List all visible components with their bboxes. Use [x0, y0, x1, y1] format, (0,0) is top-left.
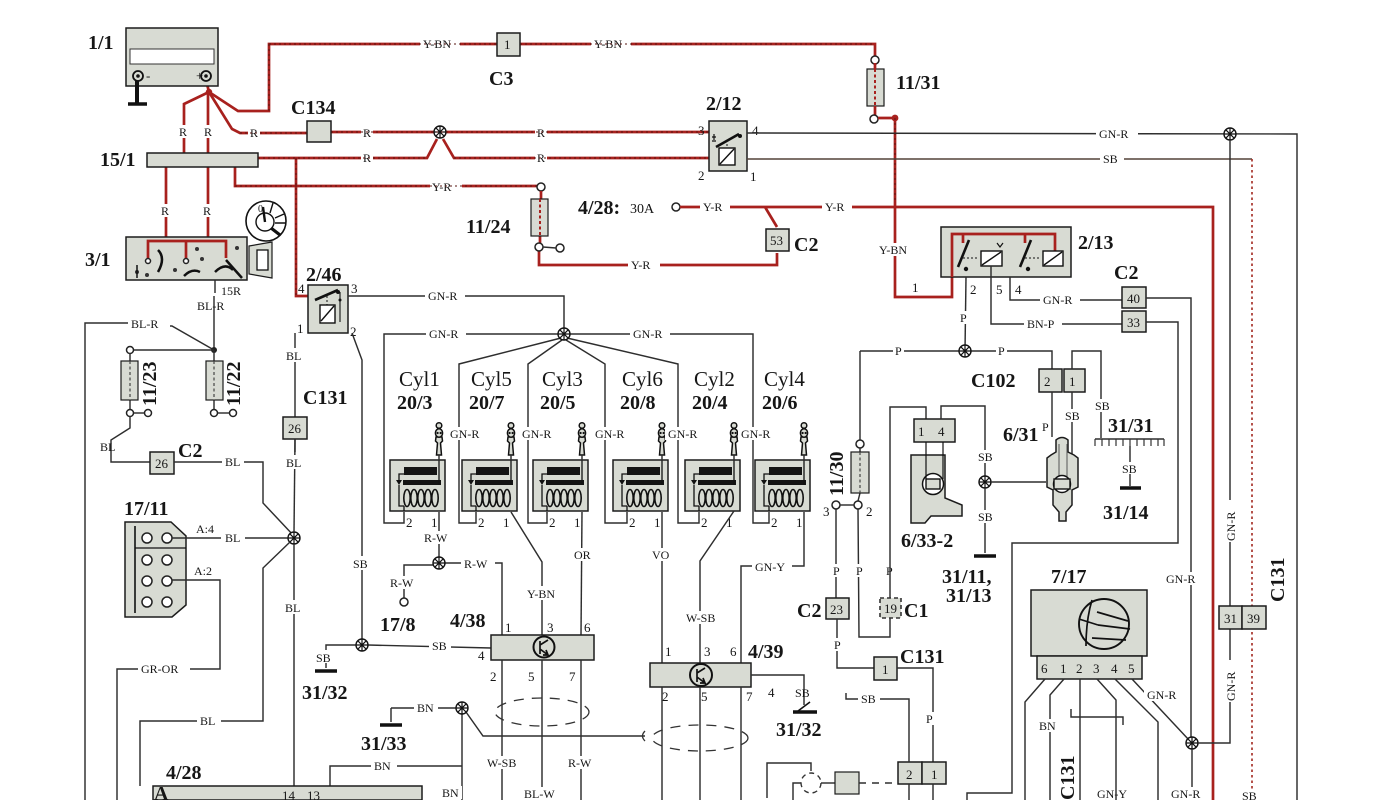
svg-text:SB: SB — [978, 450, 993, 464]
wire Y-BN Cyl5 pin1 to 4/38 pin3 — [511, 512, 542, 635]
pin 2 of 2/12 — [698, 168, 705, 183]
svg-text:2/13: 2/13 — [1078, 232, 1114, 254]
label C2 at 23 — [797, 600, 821, 622]
svg-text:Y-BN: Y-BN — [879, 243, 907, 257]
svg-text:GN-R: GN-R — [428, 289, 457, 303]
spark plug connector Cyl4 — [800, 423, 807, 461]
wire GN-R fan to Cyl6 pin2 — [566, 340, 627, 523]
wire SB starburst to ground — [326, 645, 357, 668]
svg-text:A:2: A:2 — [194, 564, 212, 578]
svg-text:30A: 30A — [630, 202, 655, 217]
svg-text:1: 1 — [665, 644, 672, 659]
ground 31/14 — [1120, 486, 1141, 490]
svg-text:2: 2 — [701, 515, 708, 530]
svg-text:2: 2 — [866, 504, 873, 519]
label SB row — [1100, 152, 1124, 166]
wire 7/17 pin3 down — [1097, 679, 1116, 800]
label GN-R row1 — [425, 289, 465, 303]
svg-text:6/31: 6/31 — [1003, 424, 1039, 446]
svg-text:W-SB: W-SB — [686, 611, 715, 625]
svg-text:14: 14 — [282, 788, 296, 800]
label C131 at pin1 — [900, 646, 944, 668]
svg-text:SB: SB — [1122, 462, 1137, 476]
label 31/31 — [1108, 415, 1154, 437]
label SB at 6/31 — [1062, 409, 1084, 423]
pin 14 of 4/28 — [282, 788, 296, 800]
pin 4 of 2/46 — [298, 281, 305, 296]
wire BL-R from 3/1 down to fuse junction — [213, 296, 215, 350]
label 31/32 right — [776, 719, 822, 741]
label R leg2 — [202, 125, 215, 139]
svg-text:P: P — [1042, 420, 1049, 434]
wire R row1 starburst to 2/12 pin3 (red) — [446, 131, 709, 134]
label 31/11, 31/13 — [942, 566, 992, 607]
label 4/39 — [748, 641, 784, 663]
svg-text:BN: BN — [417, 701, 434, 715]
svg-text:1: 1 — [574, 515, 581, 530]
label 11/24 — [466, 216, 510, 238]
svg-text:SB: SB — [1065, 409, 1080, 423]
wire GN-R 2/13 pin4 to C2-40 — [1010, 277, 1122, 300]
pin 1 of 2/13 — [912, 280, 919, 295]
label Y-BN — [524, 586, 565, 601]
wire BN branch to ECU pin13 — [330, 766, 462, 786]
label C2 above 40 — [1114, 262, 1138, 284]
svg-text:5: 5 — [528, 669, 535, 684]
key symbol 3/1 — [246, 201, 286, 241]
label 20/3 — [397, 392, 433, 414]
svg-text:BL: BL — [285, 601, 300, 615]
svg-text:3: 3 — [547, 620, 554, 635]
label SB below 31/31 — [1122, 462, 1137, 476]
svg-text:4/28:: 4/28: — [578, 197, 620, 219]
svg-text:4: 4 — [752, 123, 759, 138]
label R row2 right — [535, 151, 547, 165]
pin 4 of 4/39 — [768, 685, 775, 700]
ground 31/32 right — [793, 702, 817, 712]
label 11/23 (rotated) — [139, 362, 161, 406]
svg-text:BL-R: BL-R — [131, 317, 158, 331]
wire R row2 from 15/1 to 2/12 (red with crossover at starburst) — [258, 139, 709, 158]
svg-text:Y-R: Y-R — [825, 200, 844, 214]
label SB on 31/31 drop — [1092, 399, 1114, 413]
wire R battery down leg 2 (red) — [207, 93, 210, 153]
svg-text:4: 4 — [478, 648, 485, 663]
wire R 15/1 down to 3/1 leg1 (red) — [165, 167, 168, 241]
svg-text:20/7: 20/7 — [469, 392, 505, 414]
connector C2 pin33 — [1122, 311, 1146, 332]
pin 2 of 7/17 — [1076, 661, 1083, 676]
svg-text:1: 1 — [505, 620, 512, 635]
label 20/7 — [469, 392, 505, 414]
svg-text:1: 1 — [912, 280, 919, 295]
pin 5 of 4/39 — [701, 689, 708, 704]
svg-text:4: 4 — [938, 424, 945, 439]
node battery positive junction — [206, 80, 212, 95]
label C131 rotated below 7/17 — [1057, 756, 1079, 800]
svg-text:2/12: 2/12 — [706, 93, 742, 115]
connector 17/11 — [125, 522, 186, 617]
label C134 — [291, 97, 335, 119]
svg-text:2: 2 — [490, 669, 497, 684]
label BL-W below 4/38 — [521, 787, 559, 800]
label R-W below 4/38 — [565, 756, 597, 770]
label GN-Y — [752, 560, 792, 574]
wire SB 31/31 to ground — [1129, 446, 1131, 486]
svg-text:1: 1 — [882, 662, 889, 677]
svg-text:P: P — [960, 311, 967, 325]
coil Cyl1 20/3 — [390, 460, 445, 511]
svg-text:3: 3 — [351, 281, 358, 296]
label Y-R lower — [628, 258, 660, 272]
wire 7/17 pin4 down — [1115, 679, 1158, 800]
label Y-R row — [430, 180, 462, 194]
svg-text:GN-R: GN-R — [1171, 787, 1200, 800]
svg-text:2: 2 — [698, 168, 705, 183]
label R leg1 — [177, 125, 190, 139]
svg-text:2: 2 — [406, 515, 413, 530]
coil Cyl6 20/8 — [613, 460, 668, 511]
svg-text:R-W: R-W — [390, 576, 414, 590]
node junction starburst R — [434, 126, 446, 138]
label Y-R left — [700, 200, 730, 214]
svg-text:BL-R: BL-R — [197, 299, 224, 313]
pin 1 of 2/46 — [297, 321, 304, 336]
label BN on branch — [371, 759, 397, 773]
label GN-Y bottom — [1094, 787, 1134, 800]
wire into dashed sensor from below — [793, 783, 801, 800]
pin 3 of 7/17 — [1093, 661, 1100, 676]
label Y-BN right — [591, 37, 631, 51]
label SB bottom right — [1240, 789, 1264, 800]
spark plug connector Cyl3 — [578, 423, 585, 461]
wire SB starburst to 6/31 shell — [991, 481, 1046, 483]
label P x859 — [854, 564, 865, 578]
connector C3 — [497, 33, 520, 56]
pin 3 of 2/46 — [351, 281, 358, 296]
svg-text:Y-BN: Y-BN — [527, 587, 555, 601]
wire Y-R row from 15/1 (red) — [235, 167, 541, 186]
pin 2 of 4/39 — [662, 689, 669, 704]
svg-text:C2: C2 — [1114, 262, 1138, 284]
wire SB C102-1 down to plug shell — [1071, 392, 1073, 458]
label BL — [100, 440, 115, 454]
svg-text:2/46: 2/46 — [306, 264, 342, 286]
svg-text:3/1: 3/1 — [85, 249, 111, 271]
svg-text:GN-R: GN-R — [1166, 572, 1195, 586]
label GN-R at 7/17 pin5 — [1144, 688, 1182, 702]
svg-text:GN-R: GN-R — [1224, 672, 1238, 701]
svg-text:6: 6 — [730, 644, 737, 659]
pin 1 of Cyl1 — [431, 515, 438, 530]
svg-text:6/33-2: 6/33-2 — [901, 530, 953, 552]
label BL on branch — [197, 714, 221, 728]
wire fuse top link 11/23 to 11/22 — [127, 347, 215, 354]
connector C131 pin26 — [283, 417, 307, 439]
svg-text:17/8: 17/8 — [380, 614, 416, 636]
svg-text:39: 39 — [1247, 611, 1260, 626]
svg-text:1: 1 — [504, 37, 511, 52]
svg-text:11/24: 11/24 — [466, 216, 510, 238]
label BL on vertical — [282, 600, 304, 615]
label 17/11 — [124, 498, 168, 520]
svg-text:SB: SB — [1095, 399, 1110, 413]
svg-text:BN: BN — [374, 759, 391, 773]
label A:2 — [194, 564, 212, 578]
label BN at 7/17 — [1036, 719, 1060, 733]
pin 2 of 4/38 — [490, 669, 497, 684]
label GN-R on x1191 vertical — [1164, 572, 1202, 586]
pin 6 of 7/17 — [1041, 661, 1048, 676]
label Cyl1 — [399, 367, 440, 391]
svg-text:GN-R: GN-R — [1043, 293, 1072, 307]
svg-text:6: 6 — [584, 620, 591, 635]
label BL right of C2 — [222, 455, 244, 469]
label P at 6/31 — [1042, 420, 1049, 434]
wire stubs below bottom connector — [909, 784, 933, 800]
svg-text:Cyl2: Cyl2 — [694, 367, 735, 391]
svg-text:19: 19 — [884, 601, 897, 616]
label 15R with leader — [215, 280, 241, 298]
pin 1 of Cyl6 — [654, 515, 661, 530]
wire W-SB 4/38 pin2 down — [501, 660, 503, 800]
svg-text:2: 2 — [629, 515, 636, 530]
label C102 — [971, 370, 1015, 392]
svg-text:C134: C134 — [291, 97, 335, 119]
wire BN starburst down — [461, 713, 463, 800]
svg-text:SB: SB — [353, 557, 368, 571]
connector C1 pin19 (dashed) — [880, 598, 901, 618]
svg-text:7: 7 — [569, 669, 576, 684]
label 6/33-2 — [901, 530, 953, 552]
svg-text:A: A — [154, 783, 169, 800]
label Y-R right — [822, 200, 852, 214]
svg-text:3: 3 — [1093, 661, 1100, 676]
label C131 — [303, 387, 347, 409]
svg-text:GN-Y: GN-Y — [1097, 787, 1127, 800]
wire GN-R row from 2/12 pin4 — [747, 133, 1297, 800]
svg-text:Cyl1: Cyl1 — [399, 367, 440, 391]
svg-text:SB: SB — [316, 651, 331, 665]
svg-text:SB: SB — [978, 510, 993, 524]
svg-text:31/33: 31/33 — [361, 733, 407, 755]
pin 2 of 2/46 — [350, 324, 357, 339]
svg-text:SB: SB — [861, 692, 876, 706]
bracket under 7/17 pin2 — [1071, 709, 1123, 725]
wire red vertical to 2/46 pin4 — [296, 158, 308, 296]
label GN-R at Cyl2 plug — [738, 427, 775, 441]
label Cyl6 — [622, 367, 663, 391]
svg-text:53: 53 — [770, 233, 783, 248]
label R-W above starburst — [421, 531, 457, 545]
svg-text:7/17: 7/17 — [1051, 566, 1087, 588]
svg-text:1/1: 1/1 — [88, 32, 114, 54]
pin 6 of 4/38 — [584, 620, 591, 635]
node SB starburst x985 — [979, 476, 991, 488]
svg-text:C2: C2 — [797, 600, 821, 622]
wire GN-R 7/17 pin5 to starburst — [1132, 679, 1189, 740]
node BL-R junction — [211, 347, 217, 353]
pin A of 4/28 — [154, 783, 169, 800]
svg-text:20/3: 20/3 — [397, 392, 433, 414]
svg-text:1: 1 — [1069, 374, 1076, 389]
label SB at ground 31/32 — [315, 650, 336, 665]
label Cyl3 — [542, 367, 583, 391]
svg-text:4/28: 4/28 — [166, 762, 202, 784]
wire P C131-1 to bottom connector — [897, 668, 933, 762]
pin 2 of 11/30 — [866, 504, 873, 519]
label 7/17 — [1051, 566, 1087, 588]
label GN-R to C2-40 — [1040, 293, 1080, 307]
label BL on A:4 wire — [221, 531, 245, 545]
svg-text:GN-R: GN-R — [522, 427, 551, 441]
wire BL from C2-26 to starburst — [174, 462, 294, 536]
svg-text:31/31: 31/31 — [1108, 415, 1154, 437]
svg-text:BN: BN — [442, 786, 459, 800]
coil Cyl4 20/6 — [755, 460, 810, 511]
svg-text:R: R — [363, 126, 371, 140]
wire 7/17 pin6 down — [1025, 679, 1045, 800]
svg-text:C2: C2 — [178, 440, 202, 462]
wire BL C131-26 to starburst — [294, 439, 295, 532]
svg-text:BL: BL — [286, 456, 301, 470]
svg-text:R: R — [203, 204, 211, 218]
svg-text:C131: C131 — [303, 387, 347, 409]
wire R-W starburst to terminal circle — [400, 565, 433, 606]
label 20/4 — [692, 392, 728, 414]
ECU 4/28 — [153, 786, 422, 800]
pin 5 of 7/17 — [1128, 661, 1135, 676]
svg-text:2: 2 — [549, 515, 556, 530]
wire R-W 4/38 pin7 down — [580, 660, 582, 800]
wire W-SB Cyl2 pin1 to 4/39 pin3 — [700, 511, 734, 663]
label BN — [414, 701, 438, 715]
label GN-R at Cyl6 plug — [665, 427, 702, 441]
wire BL-W 4/38 pin5 down — [541, 660, 543, 800]
label C131 rotated right side — [1267, 558, 1289, 602]
svg-text:BL: BL — [225, 531, 240, 545]
texture overlay on red wires — [235, 44, 1213, 800]
wire SB 6/33-2 pin4 to ground — [941, 406, 985, 476]
label P pin2 — [958, 311, 969, 325]
label P below C2-23 — [832, 638, 843, 652]
pin 5 of 2/13 — [996, 282, 1003, 297]
wire P C2-23 to C131-1 — [837, 619, 874, 668]
node BL starburst — [288, 532, 300, 544]
wire R battery down leg 1 (red) — [184, 92, 209, 153]
label 3/1 — [85, 249, 111, 271]
label SB on 2/46 pin2 wire — [350, 556, 372, 571]
wire GN-Y Cyl4 pin1 to 4/39 pin6 — [741, 512, 804, 663]
wire R battery to C134 (red) — [209, 92, 440, 133]
label Cyl5 — [471, 367, 512, 391]
label C3 — [489, 68, 513, 90]
node GN-R starburst right — [1224, 128, 1236, 140]
spark plug 6/31 — [1047, 438, 1078, 522]
fuse 11/30 — [832, 351, 890, 637]
label SB at bottom connector — [858, 692, 880, 706]
pin 3 of 4/39 — [704, 644, 711, 659]
svg-text:3: 3 — [823, 504, 830, 519]
pin 6 of 4/39 — [730, 644, 737, 659]
svg-text:31/13: 31/13 — [946, 585, 992, 607]
svg-text:C1: C1 — [904, 600, 928, 622]
label Cyl2 — [694, 367, 735, 391]
label R right of C134 — [361, 126, 373, 140]
fuse 4/28 30A terminal — [578, 197, 680, 219]
wire R-W Cyl1 pin1 to starburst — [438, 512, 440, 558]
fuse 11/22 — [206, 350, 237, 417]
svg-text:VO: VO — [652, 548, 670, 562]
wire P 2/13 pin2 down to P row — [965, 277, 966, 351]
svg-text:BL: BL — [225, 455, 240, 469]
ground 31/33 — [380, 708, 402, 725]
svg-text:11/30: 11/30 — [826, 452, 848, 496]
wire BL from 2/46 pin1 — [294, 333, 296, 452]
connector pin1 bottom — [922, 762, 946, 784]
wire SB row from 2/12 pin1 — [747, 159, 1252, 800]
clipped wire labels at bottom edge under 4/39 — [650, 797, 757, 800]
label Y-BN right — [877, 243, 915, 257]
label W-SB — [683, 611, 725, 625]
pin 3 of 2/12 — [698, 123, 705, 138]
svg-text:11/22: 11/22 — [223, 362, 245, 406]
node GN-R starburst — [558, 328, 570, 340]
svg-text:11/23: 11/23 — [139, 362, 161, 406]
pin 1 of Cyl2 — [726, 515, 733, 530]
spark plug connector Cyl6 — [658, 423, 665, 461]
svg-text:2: 2 — [1044, 374, 1051, 389]
label R below 15/1 leg1 — [159, 204, 172, 218]
svg-text:GN-R: GN-R — [429, 327, 458, 341]
label BL-R upper — [197, 299, 224, 313]
svg-text:R: R — [537, 126, 545, 140]
label R row1 right — [535, 126, 547, 140]
wire BN-P from C2-33 down and around — [967, 322, 1178, 800]
node SB starburst — [356, 639, 368, 651]
svg-text:Y-R: Y-R — [703, 200, 722, 214]
label 4/28 — [166, 762, 202, 784]
pin 13 of 4/28 — [307, 788, 320, 800]
label GN-R bottom — [1168, 787, 1208, 800]
label 20/6 — [762, 392, 798, 414]
knock sensor connector 6/33-2 — [914, 419, 955, 442]
svg-text:BL: BL — [100, 440, 115, 454]
svg-text:P: P — [895, 344, 902, 358]
svg-text:GN-R: GN-R — [1099, 127, 1128, 141]
pin 1 of 4/38 — [505, 620, 512, 635]
wire Y-BN battery to C3 to 11/31 (red) — [209, 44, 875, 111]
pin 1 of 4/39 — [665, 644, 672, 659]
svg-text:Y-R: Y-R — [631, 258, 650, 272]
svg-text:2: 2 — [662, 689, 669, 704]
label GN-R at Cyl1 plug — [447, 427, 484, 441]
svg-text:GN-R: GN-R — [1147, 688, 1176, 702]
label 11/22 (rotated) — [223, 362, 245, 406]
svg-text:33: 33 — [1127, 315, 1140, 330]
svg-text:2: 2 — [771, 515, 778, 530]
label SB below starburst x985 — [975, 510, 997, 524]
connector C2 pin53 — [766, 229, 789, 251]
svg-text:P: P — [998, 344, 1005, 358]
svg-text:20/6: 20/6 — [762, 392, 798, 414]
pin 1 of Cyl3 — [574, 515, 581, 530]
svg-text:1: 1 — [796, 515, 803, 530]
svg-text:C102: C102 — [971, 370, 1015, 392]
svg-text:4: 4 — [1015, 282, 1022, 297]
coil Cyl5 20/7 — [462, 460, 517, 511]
label GN-R at Cyl5 plug — [519, 427, 556, 441]
